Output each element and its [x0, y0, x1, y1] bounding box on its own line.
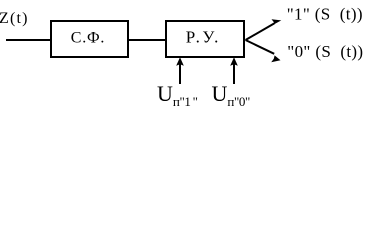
wire output "0" arrow: [246, 40, 281, 62]
wire threshold arrow into Р.У. (left): [176, 57, 184, 84]
svg-text:С.Ф.: С.Ф.: [71, 30, 105, 47]
svg-text:Uп"1 ": Uп"1 ": [157, 81, 198, 109]
wire output "1" arrow: [246, 19, 282, 40]
wire threshold arrow into Р.У. (right): [230, 57, 238, 84]
wire С.Ф. to Р.У.: [128, 39, 166, 41]
wire input to С.Ф.: [6, 39, 51, 41]
svg-text:Р.У.: Р.У.: [186, 28, 221, 47]
svg-text:Uп"0": Uп"0": [212, 81, 250, 109]
block С.Ф. (matched filter): [51, 21, 128, 57]
svg-text:Z(t): Z(t): [0, 10, 29, 27]
svg-text:"1" (S (t)): "1" (S (t)): [287, 4, 363, 23]
svg-text:"0" (S (t)): "0" (S (t)): [287, 42, 363, 61]
block Р.У. (decision device): [166, 21, 244, 57]
